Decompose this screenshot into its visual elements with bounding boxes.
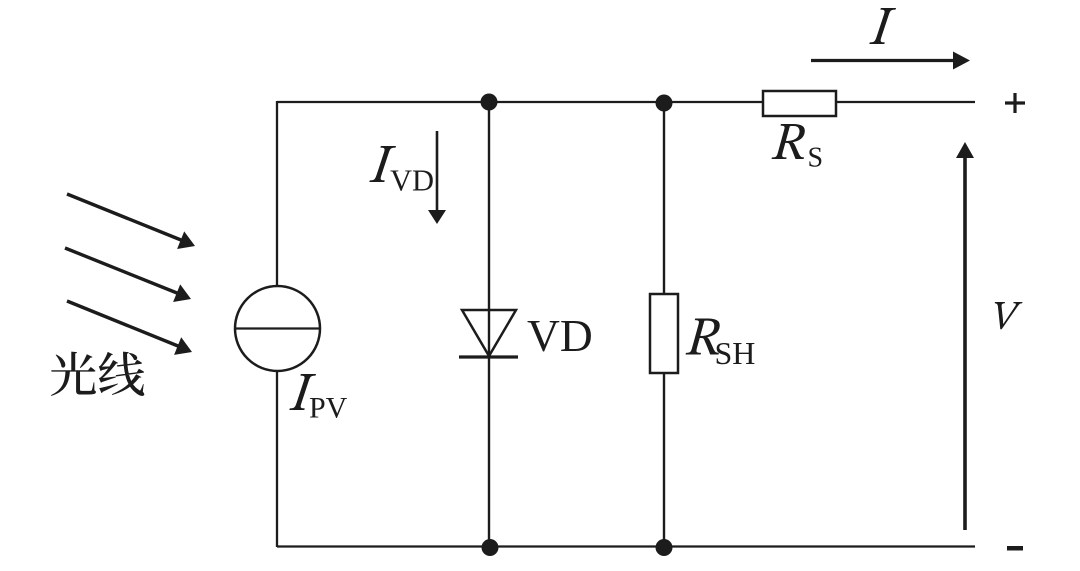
junction node bottom-right xyxy=(656,539,673,556)
svg-text:SH: SH xyxy=(715,335,756,371)
diode VD triangle xyxy=(462,310,516,356)
junction node bottom-left xyxy=(482,539,499,556)
label RSH letter R xyxy=(686,318,722,354)
wire shunt branch xyxy=(663,102,665,547)
wire left branch upper xyxy=(276,101,278,287)
diode VD cathode bar xyxy=(459,355,518,358)
label IVD letter I xyxy=(369,146,396,182)
svg-text:VD: VD xyxy=(390,164,434,198)
label IPV letter I xyxy=(289,374,316,410)
light ray arrow 2 xyxy=(65,248,177,293)
light ray arrow 1 xyxy=(67,194,181,240)
wire top bus xyxy=(277,101,975,103)
svg-text:VD: VD xyxy=(527,310,593,361)
label guangxian (Chinese: light rays) char xian xyxy=(99,352,145,396)
voltage arrow V xyxy=(963,157,967,530)
current source IPV bar xyxy=(236,327,320,329)
terminal minus xyxy=(1007,546,1023,551)
light ray arrow 3 xyxy=(67,301,178,346)
svg-text:PV: PV xyxy=(309,392,348,425)
current arrow IVD xyxy=(436,131,439,211)
resistor RSH body xyxy=(650,294,678,373)
current source IPV circle xyxy=(235,286,320,371)
svg-text:S: S xyxy=(808,143,824,174)
wire diode branch xyxy=(488,101,490,547)
terminal plus xyxy=(1005,93,1025,113)
wire bottom bus xyxy=(277,545,975,547)
junction node top-right xyxy=(656,95,673,112)
wire left branch lower xyxy=(276,370,278,547)
label guangxian (Chinese: light rays) char guang xyxy=(51,352,96,396)
label I xyxy=(869,8,896,44)
junction node top-left xyxy=(481,94,498,111)
current arrow I xyxy=(811,59,954,62)
resistor RS body xyxy=(763,91,836,116)
label V xyxy=(995,302,1023,329)
label RS letter R xyxy=(772,124,807,159)
